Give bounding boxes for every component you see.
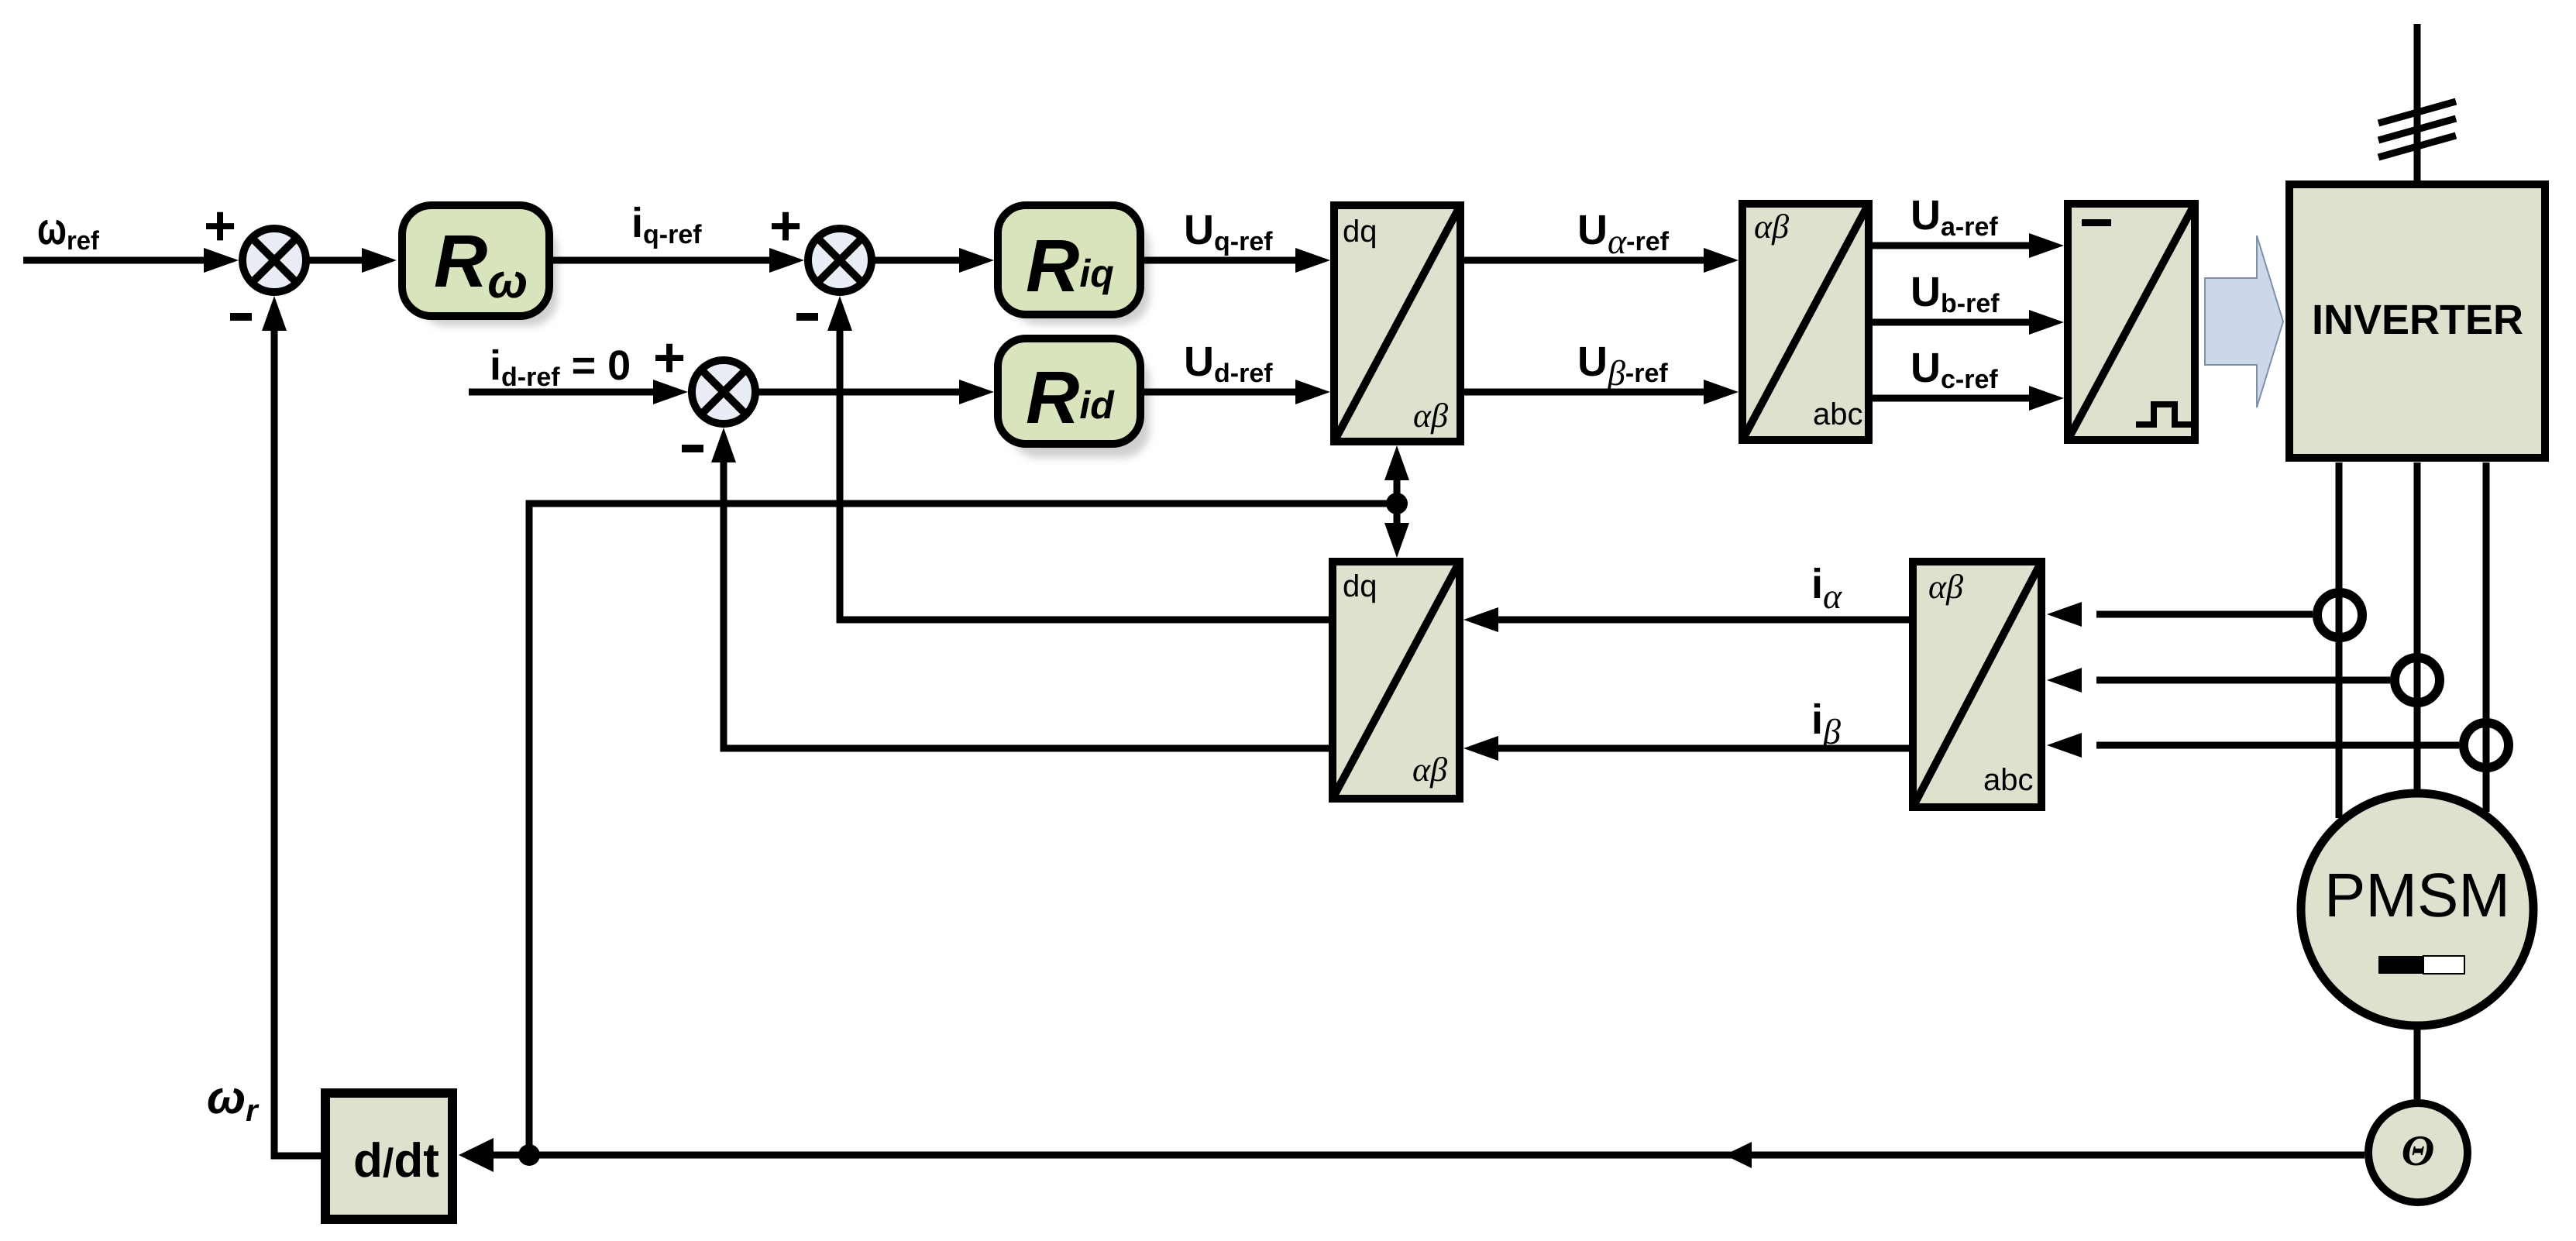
wire d/dt output to S1	[262, 296, 321, 1156]
wire dq out U_beta-ref	[1464, 380, 1739, 404]
position sensor Theta	[2368, 1103, 2468, 1202]
svg-text:Θ: Θ	[2402, 1127, 2435, 1175]
block alpha-beta to dq feedback transform	[1333, 562, 1460, 799]
wire i_b to abc block	[2047, 668, 2390, 693]
three-phase slash marks	[2378, 101, 2456, 157]
node U_a-ref label	[1911, 192, 1998, 242]
block alpha-beta to abc transform	[1742, 204, 1869, 440]
wire i_q feedback to S2	[827, 296, 1329, 620]
junction dot theta tee	[1386, 493, 1408, 514]
wire theta distribution	[529, 504, 1397, 1155]
wire abc out U_a-ref	[1873, 233, 2064, 258]
wire Riq to dq block, U_q-ref	[1144, 248, 1330, 273]
block abc to alpha-beta feedback transform	[1913, 562, 2041, 807]
node i_beta label	[1811, 696, 1841, 751]
wire DC supply into inverter	[2414, 24, 2421, 180]
wire i_beta abc to dq	[1463, 736, 1909, 761]
wire i_d-ref input	[469, 380, 688, 404]
wire PMSM to position sensor	[2414, 1030, 2421, 1099]
svg-text:αβ: αβ	[1412, 751, 1447, 789]
node U_b-ref label	[1911, 269, 2000, 318]
summing junction S1	[242, 229, 306, 292]
svg-text:INVERTER: INVERTER	[2312, 297, 2523, 343]
svg-text:+: +	[204, 195, 236, 257]
block Rid current regulator	[998, 339, 1150, 458]
wire Rid to dq block, U_d-ref	[1144, 380, 1330, 404]
wire S2 to Riq	[872, 248, 994, 273]
node U_alpha-ref label	[1577, 207, 1670, 261]
minus sign at S3	[682, 445, 703, 452]
minus sign at S2	[796, 313, 818, 321]
wire theta to top dq block	[1384, 445, 1409, 504]
wire theta sensor to d/dt and controller	[459, 1138, 2364, 1172]
block PMSM motor	[2301, 793, 2533, 1026]
wire i_a to abc block	[2047, 602, 2313, 627]
wire S1 to Rw	[306, 248, 397, 273]
svg-text:αβ: αβ	[1754, 208, 1789, 246]
node i_d-ref = 0 label	[490, 342, 631, 392]
wire i_d feedback to S3	[711, 428, 1329, 748]
svg-text:αβ: αβ	[1413, 397, 1448, 435]
svg-text:αβ: αβ	[1928, 568, 1963, 606]
block dq to alpha-beta transform	[1334, 205, 1460, 442]
svg-text:abc: abc	[1983, 763, 2034, 797]
node i_alpha label	[1811, 561, 1842, 616]
plus sign at S1	[204, 195, 236, 257]
junction dot theta branch	[518, 1144, 540, 1166]
node i_q-ref label	[631, 200, 702, 249]
block Rw speed regulator	[402, 205, 558, 326]
block INVERTER	[2289, 184, 2545, 458]
wire inverter output phase a	[2336, 462, 2343, 818]
block arrow PWM to inverter	[2205, 235, 2283, 407]
svg-text:dq: dq	[1343, 569, 1377, 603]
node U_c-ref label	[1911, 345, 1998, 394]
plus sign at S3	[653, 327, 686, 389]
svg-text:abc: abc	[1813, 397, 1863, 431]
minus sign at S1	[230, 313, 252, 321]
svg-text:d/dt: d/dt	[353, 1134, 439, 1188]
current sensor phase a	[2317, 593, 2362, 638]
block Riq current regulator	[998, 205, 1150, 325]
plus sign at S2	[769, 195, 802, 257]
wire abc out U_b-ref	[1873, 310, 2064, 335]
summing junction S2	[808, 229, 872, 292]
node U_beta-ref label	[1577, 339, 1668, 393]
wire i_c to abc block	[2047, 733, 2459, 758]
node w_r label	[207, 1071, 260, 1128]
node U_d-ref label	[1184, 339, 1273, 388]
wire theta to feedback dq block	[1384, 504, 1409, 558]
wire w_ref input	[23, 248, 239, 273]
svg-text:dq: dq	[1343, 215, 1377, 249]
current sensor phase c	[2464, 723, 2509, 768]
wire Rw to S2, i_q-ref	[549, 248, 804, 273]
wire inverter output phase c	[2483, 462, 2490, 812]
svg-text:+: +	[769, 195, 802, 257]
current sensor phase b	[2395, 658, 2440, 703]
wire abc out U_c-ref	[1873, 386, 2064, 411]
svg-text:PMSM: PMSM	[2324, 861, 2510, 930]
node U_q-ref label	[1184, 207, 1273, 256]
wire S3 to Rid	[755, 380, 994, 404]
summing junction S3	[692, 360, 755, 424]
wire i_alpha abc to dq	[1463, 607, 1909, 632]
node w_ref label	[37, 204, 100, 256]
svg-text:+: +	[653, 327, 686, 389]
wire inverter output phase b	[2414, 462, 2421, 789]
wire dq out U_alpha-ref	[1464, 248, 1739, 273]
block d/dt differentiator	[325, 1093, 452, 1219]
block PWM modulator	[2068, 204, 2195, 440]
